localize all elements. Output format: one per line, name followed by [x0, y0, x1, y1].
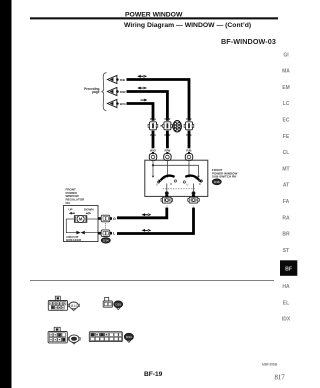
- wire R/W lower: [166, 131, 169, 149]
- left switch arm: [161, 176, 175, 181]
- wire W/G horizontal+vertical: [127, 104, 154, 121]
- crossover arrows wire L: [142, 229, 152, 232]
- wire R/B horizontal+vertical: [127, 80, 190, 121]
- svg-text:ST: ST: [283, 248, 289, 254]
- preceding page label: [84, 87, 100, 94]
- svg-text:D34: D34: [126, 335, 132, 339]
- svg-text:BR: BR: [282, 232, 290, 238]
- left switch pivot circles: [158, 181, 160, 183]
- header rule: [30, 17, 278, 19]
- dashed connector link: [105, 223, 107, 229]
- svg-text:FA: FA: [283, 199, 290, 205]
- svg-text:BF: BF: [285, 267, 292, 273]
- svg-text:MA: MA: [282, 69, 290, 75]
- svg-text:M14: M14: [71, 304, 77, 308]
- internal wire from W/G: [153, 160, 199, 176]
- inline connector W/G: [148, 122, 158, 130]
- svg-text:BF-19: BF-19: [144, 371, 163, 378]
- svg-text:SUB-SWITCH RH: SUB-SWITCH RH: [212, 175, 236, 179]
- svg-text:RA: RA: [282, 215, 290, 221]
- svg-text:M: M: [79, 217, 83, 222]
- pinout connector D34: [89, 332, 122, 342]
- svg-text:UP: UP: [68, 207, 72, 211]
- wire to motor G: [117, 208, 167, 218]
- regulator label text: [66, 188, 86, 205]
- page connector arrow 3: [107, 99, 118, 107]
- tab BF active box: [280, 260, 297, 276]
- svg-text:EM: EM: [282, 85, 290, 91]
- mechanical link dashed: [163, 188, 197, 190]
- inline connector R/B: [184, 122, 194, 130]
- box exit connector 1: [161, 197, 173, 203]
- svg-text:W/G: W/G: [150, 117, 157, 121]
- svg-text:EC: EC: [283, 118, 290, 124]
- dashed separator: [30, 279, 274, 281]
- connector badge D34: [101, 238, 110, 244]
- badge M14: [68, 302, 79, 311]
- connector face oval: [173, 121, 181, 132]
- svg-text:D36: D36: [214, 180, 220, 184]
- up arrow (left): [69, 212, 75, 215]
- inline connector labels above: [150, 117, 192, 121]
- wire R/W horizontal+vertical: [127, 92, 168, 121]
- svg-text:LC: LC: [283, 101, 290, 107]
- svg-text:Wiring Diagram — WINDOW — (Con: Wiring Diagram — WINDOW — (Cont’d): [124, 22, 251, 29]
- page connector arrow 2: [107, 87, 118, 95]
- box exit terminal dots: [165, 195, 168, 198]
- svg-text:D: D: [199, 182, 201, 186]
- svg-text:MT: MT: [282, 166, 289, 172]
- svg-text:FE: FE: [283, 134, 290, 140]
- svg-text:IDX: IDX: [282, 316, 291, 322]
- pinout connector M14: [48, 296, 67, 310]
- svg-text:N: N: [195, 177, 197, 181]
- terminal connector 1: [149, 152, 156, 161]
- switch labels: [156, 177, 201, 187]
- inline connector R/W: [163, 122, 173, 130]
- svg-text:N: N: [163, 177, 165, 181]
- motor symbol: [74, 215, 86, 222]
- svg-text:R/B: R/B: [120, 78, 126, 82]
- svg-text:MBF396B: MBF396B: [262, 363, 278, 367]
- junction dot: [152, 164, 154, 166]
- circuit breaker symbol: [76, 231, 84, 235]
- brace: [102, 73, 107, 111]
- switch label text: [212, 168, 237, 178]
- crossover arrows wire1: [137, 75, 147, 78]
- contact arrowheads: [152, 176, 200, 178]
- joint dash: [160, 125, 162, 126]
- terminal connector 2: [164, 152, 171, 161]
- svg-text:D34: D34: [103, 239, 109, 243]
- regulator box: [64, 206, 99, 242]
- motor internal wires: [66, 219, 99, 233]
- connector badge D36: [212, 179, 221, 185]
- svg-text:G: G: [113, 217, 116, 221]
- terminal labels row: [150, 149, 192, 153]
- svg-text:R/B: R/B: [186, 117, 192, 121]
- regulator connector L: [98, 230, 112, 237]
- svg-text:D29: D29: [115, 303, 121, 307]
- svg-text:D: D: [170, 182, 172, 186]
- sub-switch box: [145, 160, 208, 196]
- svg-text:R/W: R/W: [164, 117, 170, 121]
- crossover arrows wire G: [142, 213, 152, 216]
- svg-text:R/W: R/W: [120, 90, 126, 94]
- arrow wire3: [141, 99, 148, 102]
- right switch pivot circles: [183, 181, 185, 183]
- svg-text:page: page: [92, 90, 100, 94]
- svg-text:W/G: W/G: [120, 102, 127, 106]
- svg-text:GI: GI: [283, 52, 289, 58]
- svg-text:BF-WINDOW-03: BF-WINDOW-03: [221, 37, 276, 46]
- svg-text:CL: CL: [283, 150, 290, 156]
- right switch arm: [185, 176, 199, 181]
- inline connector labels below: [150, 133, 192, 137]
- svg-text:U: U: [156, 183, 158, 187]
- svg-text:817: 817: [275, 374, 286, 381]
- badge D29: [114, 301, 123, 310]
- svg-text:L: L: [113, 232, 116, 236]
- regulator connector G: [98, 215, 112, 222]
- bottom terminal stubs: [167, 184, 194, 194]
- wire to motor L: [117, 208, 194, 234]
- svg-text:U: U: [186, 183, 188, 187]
- internal wire R/B down: [188, 160, 190, 176]
- box exit connector 2: [188, 197, 200, 203]
- down arrow (right): [86, 212, 91, 215]
- wire W/G lower: [152, 131, 155, 149]
- page connector arrow 1: [107, 75, 118, 83]
- svg-text:EL: EL: [283, 300, 289, 306]
- scan gutter bar: [0, 0, 12, 388]
- pinout connector D29: [103, 297, 112, 307]
- svg-text:HA: HA: [282, 284, 290, 290]
- pinout connector D36: [48, 327, 67, 343]
- svg-text:DOWN: DOWN: [84, 207, 94, 211]
- crossover arrows wire2: [137, 87, 147, 90]
- svg-text:BREAKER: BREAKER: [66, 238, 82, 242]
- wire R/B lower: [188, 131, 191, 149]
- badge D36 lower: [68, 335, 80, 344]
- terminal connector 3: [185, 152, 192, 161]
- circuit breaker label: [66, 235, 82, 242]
- bottom terminal dots: [165, 191, 169, 195]
- svg-text:AT: AT: [283, 183, 289, 189]
- badge D34 lower: [124, 333, 133, 342]
- internal wire R/W down: [166, 160, 168, 176]
- internal stub W/G down: [152, 165, 154, 176]
- section tabs right margin: [282, 52, 290, 254]
- svg-text:RH: RH: [66, 201, 70, 205]
